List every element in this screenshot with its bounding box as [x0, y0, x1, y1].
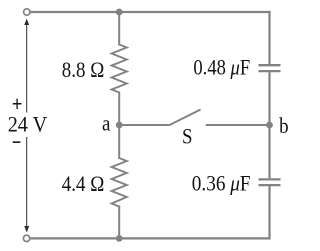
- wire right branch middle (C1 to node b): [268, 72, 270, 178]
- arrowhead up: [24, 19, 29, 25]
- voltage arrow line upper segment: [26, 20, 28, 113]
- wire switch left (node a to pivot): [119, 124, 169, 126]
- wire middle branch bottom stub: [118, 206, 120, 239]
- svg-text:−: −: [12, 130, 22, 155]
- node a junction dot: [116, 122, 123, 129]
- node junction dot top of middle branch: [116, 9, 123, 16]
- wire switch right (contact to node b): [206, 124, 270, 126]
- wire middle branch between resistor and node a: [118, 92, 120, 127]
- terminal circle top left: [24, 9, 30, 15]
- switch S blade: [169, 110, 201, 126]
- wire middle branch top stub: [118, 12, 120, 46]
- wire middle branch between node a and resistor 4.4: [118, 124, 120, 159]
- svg-text:4.4 Ω: 4.4 Ω: [62, 171, 105, 196]
- svg-text:0.36 μF: 0.36 μF: [192, 171, 251, 196]
- resistor 4.4 ohm zigzag: [112, 158, 127, 207]
- svg-text:a: a: [102, 111, 110, 136]
- svg-text:8.8 Ω: 8.8 Ω: [62, 57, 105, 82]
- resistor 8.8 ohm zigzag: [112, 45, 127, 93]
- capacitor C1 plate lower: [259, 70, 281, 72]
- svg-text:S: S: [182, 123, 193, 148]
- voltage arrow line lower segment: [26, 137, 28, 232]
- terminal circle bottom left: [23, 235, 29, 241]
- wire bottom horizontal: [27, 237, 271, 239]
- capacitor C2 plate lower: [259, 184, 281, 186]
- svg-text:b: b: [279, 113, 289, 138]
- node b junction dot: [266, 122, 273, 129]
- capacitor C1 plate upper: [259, 64, 281, 66]
- wire right branch upper (to capacitor C1): [268, 11, 270, 64]
- svg-text:0.48 μF: 0.48 μF: [193, 55, 250, 80]
- capacitor C2 plate upper: [259, 178, 281, 180]
- node junction dot bottom of middle branch: [116, 235, 123, 242]
- wire top horizontal: [27, 11, 271, 13]
- arrowhead down: [24, 226, 29, 232]
- wire right branch lower (C2 to bottom): [268, 186, 270, 240]
